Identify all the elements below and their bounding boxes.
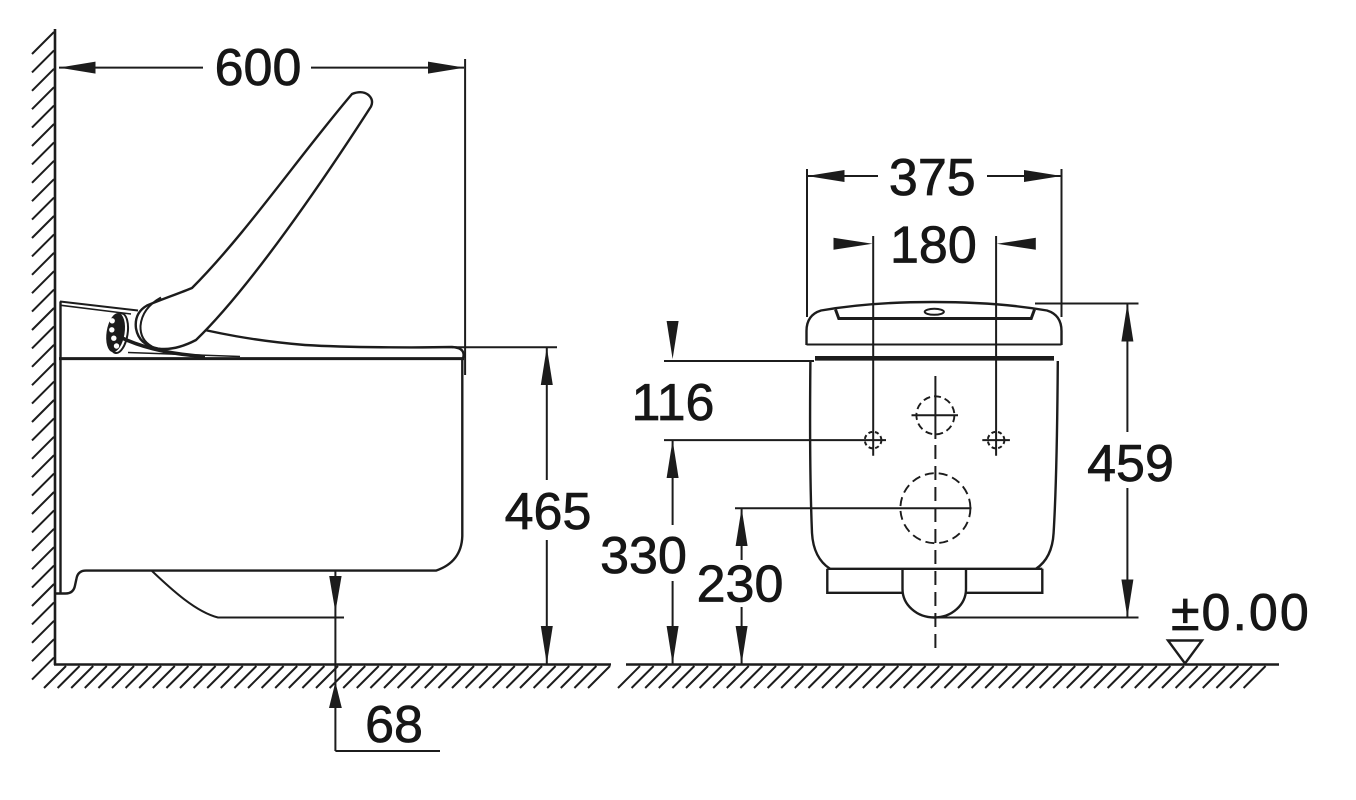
cistern cap outline (rear view) — [807, 302, 1062, 345]
seat top profile (side view) — [175, 323, 464, 359]
base step right — [966, 569, 1042, 593]
hinge dark ellipse — [104, 312, 128, 354]
extension line right of 600 — [464, 59, 466, 375]
extension lines 375 — [806, 169, 808, 317]
toilet body left edge (side view) — [59, 302, 61, 594]
svg-text:600: 600 — [215, 39, 302, 97]
wall hatching — [32, 32, 54, 680]
arrow 180 left — [834, 238, 873, 250]
arrow 68 lower (up) — [329, 682, 342, 708]
seat edge band (rear view) — [815, 356, 1054, 361]
reference line 230 — [735, 507, 972, 509]
mounting hole right — [988, 432, 1005, 449]
water supply circle — [916, 396, 954, 434]
svg-text:±0.00: ±0.00 — [1171, 584, 1311, 642]
dimension line 68 — [334, 571, 336, 751]
mounting hole left — [865, 432, 882, 449]
dimension line 600 — [59, 67, 203, 69]
body right edge (rear view) — [1036, 361, 1058, 569]
seat ring side line — [128, 353, 240, 357]
base step left — [827, 569, 902, 593]
level triangle — [1168, 641, 1202, 664]
cap inner panel line — [836, 310, 1035, 319]
vertical centerline (rear view) — [934, 376, 936, 439]
arrow 68 upper (down) — [329, 576, 341, 612]
svg-text:230: 230 — [697, 556, 784, 614]
floor hatching (rear view) — [618, 666, 1266, 688]
svg-text:375: 375 — [889, 149, 976, 207]
floor hatching (left view) — [44, 666, 610, 688]
arrow 375 left — [807, 170, 845, 182]
arrow 180 right — [997, 238, 1036, 250]
reference line 459 bottom — [936, 617, 1139, 619]
arrow 230 top (up) — [736, 508, 748, 546]
toilet body right edge + bottom + step (side view) — [55, 359, 462, 594]
extension lines 180 — [872, 236, 874, 456]
cap button oval — [925, 309, 944, 315]
arrow 600 left — [59, 62, 96, 74]
floor line (rear view) — [626, 663, 1279, 666]
arrow 230 bottom (down) — [736, 626, 748, 664]
open lid (side view) — [136, 92, 372, 349]
arrow 600 right — [428, 62, 465, 74]
hinge holes — [109, 318, 119, 349]
arrow 459 bottom (down) — [1121, 580, 1133, 618]
seat lower edge curve at hinge — [116, 335, 205, 357]
reference line 116 top — [664, 360, 814, 362]
svg-text:180: 180 — [890, 217, 977, 275]
extension line top for 465 — [452, 346, 557, 348]
arrow 465 top — [541, 347, 553, 385]
svg-text:330: 330 — [600, 527, 687, 585]
floor line (left view) — [54, 663, 611, 666]
svg-text:459: 459 — [1087, 435, 1174, 493]
cap bottom line — [807, 344, 1062, 346]
lid inner foot line — [140, 298, 161, 347]
reference line 116 bottom / holes line — [664, 439, 886, 441]
body bottom line (rear view) — [827, 568, 1042, 570]
drain outlet circle — [900, 473, 970, 543]
arrow 330 top (up) — [667, 440, 679, 478]
dimension line 330 — [672, 440, 674, 525]
svg-text:68: 68 — [365, 696, 423, 754]
arrow 375 right — [1024, 170, 1062, 182]
dimension line 375 — [807, 175, 878, 177]
svg-text:116: 116 — [632, 374, 715, 432]
wall line (left view) — [54, 29, 57, 665]
reference line 459 top — [1035, 303, 1139, 305]
drain dome (rear view) — [903, 569, 967, 618]
dimension line 459 — [1126, 304, 1128, 433]
arrow 465 bottom — [541, 626, 553, 664]
ceramic top line (side view) — [59, 357, 464, 360]
arrow 330 bottom (down) — [667, 626, 679, 664]
arrow 459 top (up) — [1121, 304, 1133, 342]
arrow 116 top (down) — [667, 321, 679, 359]
hinge cover outline ellipse — [107, 312, 131, 354]
dimension line 465 — [546, 347, 548, 480]
body left edge (rear view) — [810, 361, 830, 569]
toilet tank top lines (side view) — [60, 302, 138, 311]
dimension line 230 — [741, 508, 743, 560]
drain cover dome (side view) — [152, 571, 344, 618]
svg-text:465: 465 — [505, 483, 592, 541]
